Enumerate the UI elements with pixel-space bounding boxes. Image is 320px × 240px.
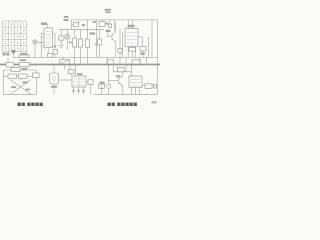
- diode D1: [53, 46, 56, 49]
- resistor R17: [132, 60, 140, 64]
- wire stub x=78.8: [78, 20, 80, 24]
- label IC2 smudge: [128, 25, 135, 28]
- wire x=99.5: [99, 29, 101, 39]
- wire through R7: [74, 29, 76, 63]
- wire band drop x=64.5: [64, 65, 66, 69]
- svg-text:0: 0: [11, 23, 13, 27]
- table caption smudge: [2, 53, 5, 56]
- wire drop x=152: [151, 20, 153, 58]
- wire mic bottom: [60, 41, 62, 45]
- wire through R9: [87, 29, 89, 63]
- wire J1 down: [101, 88, 103, 94]
- capacitor C3 bars: [94, 43, 98, 45]
- label above IC3: [77, 73, 82, 75]
- capacitor C4 body: [108, 24, 111, 28]
- resistor R11: [118, 49, 122, 54]
- IC1 bottom pin: [47, 48, 49, 58]
- wire x=120: [119, 28, 121, 49]
- ground under mic: [59, 46, 65, 48]
- wire through R8: [79, 29, 81, 63]
- wire band drop x=126: [125, 65, 127, 72]
- svg-text:0: 0: [23, 41, 25, 45]
- wire fig5 top rail: [113, 71, 131, 73]
- fuse F1 on band: [6, 63, 14, 68]
- label 9013 smudge: [11, 86, 16, 88]
- svg-text:0: 0: [17, 47, 19, 51]
- IC1 right pin: [53, 33, 56, 35]
- label R7 smudge: [69, 42, 72, 44]
- switch S1 box: [60, 60, 70, 64]
- capacitor C11: [73, 87, 75, 94]
- resistor R6 on rail: [48, 54, 53, 58]
- resistor R27: [145, 84, 152, 89]
- IC1 inner text rows: [46, 32, 52, 46]
- capacitor C15: [153, 84, 156, 88]
- wire right border x=157.4: [156, 20, 158, 94]
- wire band drop x=75.5: [75, 65, 77, 76]
- wire R13 to rail: [142, 51, 144, 57]
- wire drop x=114.8 to Q1: [114, 20, 116, 32]
- resistor R24: [68, 70, 74, 74]
- truth table outer frame: [3, 21, 27, 52]
- wire fig5 bottom rail: [94, 93, 158, 95]
- IC4 bottom pins: [132, 88, 140, 95]
- resistor R28 on right rail: [33, 73, 40, 78]
- wire IC4 right: [142, 85, 145, 87]
- op-amp IC1: [44, 28, 53, 48]
- wire band drop x=131.5: [131, 65, 133, 76]
- resistor R10: [98, 39, 102, 45]
- resistor R7: [73, 38, 77, 47]
- speaker inner mark: [52, 77, 56, 81]
- page number smudge: [152, 101, 157, 104]
- label VT3 smudge: [23, 81, 28, 83]
- label smudge below R14: [20, 59, 27, 61]
- transistor Q2 cross wires: [10, 80, 31, 95]
- resistor R4 under bus: [99, 22, 105, 27]
- label C1 103: [64, 16, 69, 18]
- label smudge mid: [90, 32, 96, 34]
- wire lamp2 down: [66, 39, 68, 50]
- resistor R15 on band: [19, 62, 30, 66]
- caption fig5: [108, 103, 137, 106]
- wire lamp2 top: [66, 29, 68, 34]
- figure4 bottom rail: [3, 93, 36, 95]
- wire drop x=132.5 to IC2: [132, 20, 134, 29]
- wire speaker down: [53, 84, 55, 94]
- IC2 inner text rows: [127, 33, 137, 44]
- wire center stub: [20, 78, 22, 80]
- resistor R9: [86, 39, 90, 48]
- capacitor C14: [107, 84, 111, 88]
- wire speaker to IC3: [59, 79, 73, 81]
- antenna W1: [11, 50, 16, 54]
- label base smudge: [26, 89, 30, 91]
- label smudge right of R4: [106, 23, 109, 25]
- svg-text:1: 1: [17, 29, 19, 33]
- wire drop x=87.7: [87, 20, 89, 29]
- figure4 left rail: [2, 70, 4, 94]
- svg-text:0: 0: [5, 29, 7, 33]
- wire x=148.4: [147, 37, 149, 58]
- wire x=122.5: [122, 32, 124, 57]
- IC2 bottom pins: [128, 46, 135, 57]
- speaker Y1: [50, 73, 59, 84]
- IC U3: [72, 76, 86, 87]
- label R21 smudge: [22, 68, 28, 70]
- label smudge under R13: [140, 53, 145, 55]
- lamp LS2: [65, 34, 70, 39]
- resistor R8: [78, 39, 82, 47]
- wire rail-band x=120: [119, 57, 121, 63]
- wire C14 down: [108, 88, 110, 94]
- wire rail-band x=8: [7, 57, 9, 62]
- resistor R13: [140, 46, 146, 51]
- IC1 top pin: [47, 25, 49, 28]
- IC U2: [125, 29, 138, 47]
- wire Q3 collector: [122, 72, 124, 76]
- label above bus C6: [105, 9, 112, 11]
- transistor Q1: [108, 29, 116, 42]
- svg-text:0: 0: [11, 41, 13, 45]
- wire ground band: [0, 64, 160, 66]
- label IC1 smudge: [41, 22, 47, 25]
- wire Q3 base lead: [108, 80, 118, 82]
- label VT1 smudge: [106, 30, 111, 32]
- svg-text:0: 0: [17, 35, 19, 39]
- svg-text:1: 1: [11, 35, 13, 39]
- label R3 smudge: [82, 24, 85, 26]
- wire rail-band x=146.5: [146, 57, 148, 63]
- svg-text:1: 1: [23, 23, 25, 27]
- wire Q3 emitter: [122, 87, 124, 95]
- svg-text:0: 0: [5, 47, 7, 51]
- relay J1 box: [99, 84, 105, 88]
- IC1 left pins: [41, 34, 44, 46]
- svg-text:1: 1: [11, 29, 13, 33]
- wire R25 down: [90, 85, 92, 95]
- resistor R21: [11, 68, 20, 72]
- wire drop x=96.5: [96, 20, 98, 58]
- label smudge left of drop: [93, 21, 96, 23]
- wire R24 to IC3: [70, 74, 72, 77]
- svg-text:1: 1: [5, 35, 7, 39]
- capacitor C4 stub: [109, 20, 111, 24]
- truth table row lines: [3, 27, 27, 45]
- wire mid rail: [13, 56, 158, 58]
- wire rail-band x=107: [106, 57, 108, 63]
- IC U4: [129, 76, 142, 88]
- IC2 right pin: [138, 37, 143, 47]
- wire lamp to IC1: [37, 41, 44, 43]
- wire drop x=128.2 to IC2: [127, 20, 129, 29]
- wire band drop x=113.3: [112, 65, 114, 72]
- Q1 collector wire: [114, 20, 117, 32]
- resistor R14 on rail: [19, 55, 29, 58]
- wire top bus: [71, 19, 157, 21]
- svg-text:1: 1: [17, 41, 19, 45]
- wire rail-band x=140: [139, 57, 141, 63]
- wire speaker top: [53, 65, 55, 73]
- truth table cell digits: [5, 23, 25, 51]
- figure4 top rail: [3, 69, 36, 71]
- label R14 smudge: [20, 53, 27, 55]
- svg-text:1: 1: [5, 23, 7, 27]
- resistor R12 under IC2: [129, 48, 136, 52]
- figure4 second rail: [3, 75, 36, 77]
- wire lamp down: [34, 44, 36, 57]
- svg-text:1: 1: [23, 35, 25, 39]
- transistor Q3: [119, 76, 123, 87]
- IC3 inner rows: [74, 76, 85, 87]
- label under speaker: [51, 86, 57, 88]
- Q1 emitter wire: [115, 42, 117, 57]
- wire rail-band x=126: [125, 57, 127, 63]
- wire sub rail y=29.3: [59, 28, 104, 30]
- caption fig4: [18, 103, 43, 106]
- resistor R23: [19, 74, 28, 78]
- lamp LS1: [33, 40, 37, 44]
- wire x=55: [54, 34, 56, 45]
- svg-text:1: 1: [23, 47, 25, 51]
- svg-text:0: 0: [23, 29, 25, 33]
- wire IC1 left rail: [40, 34, 42, 58]
- wire rail-band x=63: [62, 57, 64, 63]
- wire R27 right: [152, 85, 153, 87]
- wire drop at x=71.5: [71, 20, 73, 29]
- label J1 smudge: [100, 82, 105, 84]
- resistor R25: [88, 80, 93, 85]
- figure4 right rail: [35, 70, 37, 94]
- resistor R16: [108, 60, 114, 64]
- svg-text:1: 1: [17, 23, 19, 27]
- IC4 inner rows: [131, 80, 141, 87]
- resistor R5: [53, 50, 58, 55]
- capacitor C2: [74, 23, 79, 27]
- relay inner circle: [100, 85, 103, 88]
- label Q3 smudge: [116, 75, 120, 77]
- truth table column lines: [9, 21, 21, 52]
- resistor R22: [8, 74, 17, 78]
- svg-text:1: 1: [5, 41, 7, 45]
- capacitor C13: [83, 87, 85, 94]
- microphone BM: [58, 35, 64, 41]
- wire band drop x=108.3: [107, 65, 109, 84]
- wire mic top: [60, 29, 62, 35]
- wire band drop x=70: [69, 65, 71, 69]
- capacitor C12: [78, 87, 80, 94]
- resistor R26: [118, 67, 125, 72]
